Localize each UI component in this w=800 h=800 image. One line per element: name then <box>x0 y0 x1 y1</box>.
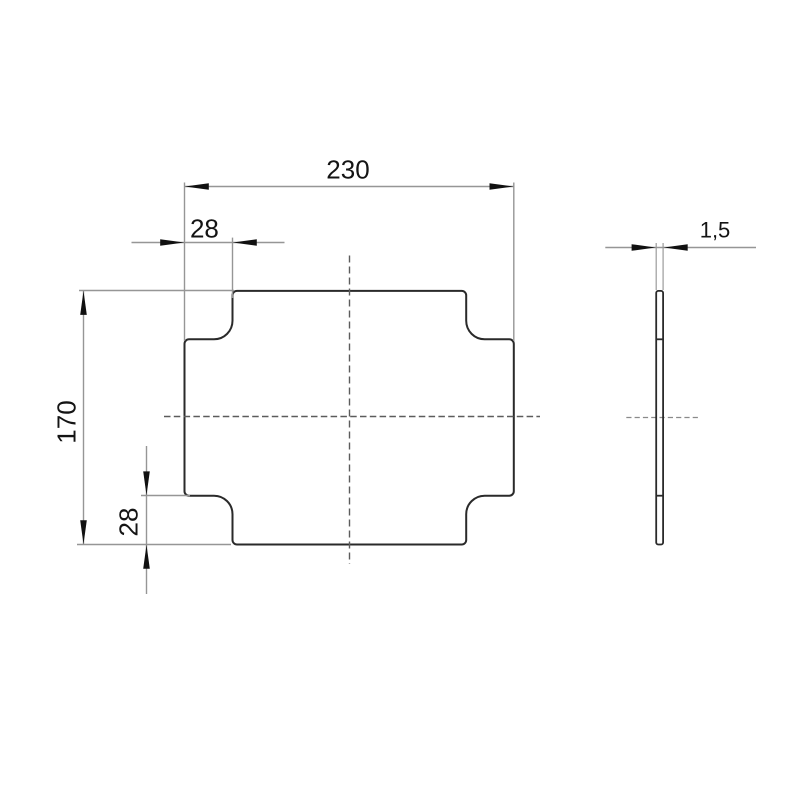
svg-text:170: 170 <box>52 400 82 443</box>
dimension 28 top label <box>190 213 219 243</box>
dimension 170 extension line top <box>79 290 234 292</box>
side view plate body <box>656 291 663 545</box>
dimension 170 line <box>80 291 87 545</box>
dimension 1,5 label <box>700 218 731 243</box>
dimension 28 bottom extension line <box>141 495 190 497</box>
dimension 230 extension line right <box>513 183 515 342</box>
dimension 1,5 line <box>605 244 756 251</box>
svg-text:1,5: 1,5 <box>700 218 731 243</box>
dimension 28 bottom label <box>114 508 144 537</box>
svg-text:28: 28 <box>114 508 144 537</box>
dimension 28 top line <box>132 239 285 246</box>
svg-text:230: 230 <box>326 155 369 185</box>
dimension 28 top extension line <box>232 238 234 298</box>
vertical centerline front view <box>349 256 351 565</box>
horizontal centerline side view <box>626 417 700 419</box>
svg-text:28: 28 <box>190 213 219 243</box>
dimension 1,5 extension lines <box>656 243 663 290</box>
dimension 230 line <box>185 183 514 190</box>
dimension 170 extension line bottom <box>77 544 231 546</box>
dimension 230 extension line left <box>184 183 186 342</box>
dimension 170 label <box>52 400 82 443</box>
front view plate outline <box>185 291 514 545</box>
dimension 28 bottom line <box>143 446 150 594</box>
dimension 230 label <box>326 155 369 185</box>
horizontal centerline front view <box>164 416 540 418</box>
